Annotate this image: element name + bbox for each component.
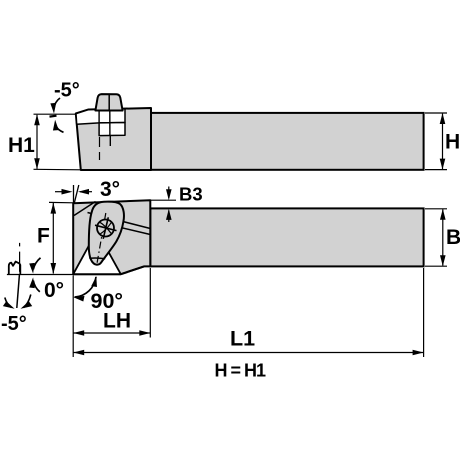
B3 upper arrow — [168, 187, 170, 199]
-5 arc arrow upper — [50, 103, 57, 114]
svg-text:3°: 3° — [100, 178, 120, 201]
L1 arrow left — [73, 350, 84, 356]
H top extension line — [425, 112, 447, 114]
B top extension line — [425, 208, 447, 210]
svg-text:-5°: -5° — [1, 313, 27, 335]
0 deg arc lower — [33, 281, 40, 292]
L1 right extension line — [423, 268, 425, 357]
clamp nose line — [89, 257, 105, 260]
head side view — [76, 108, 151, 170]
svg-text:0°: 0° — [44, 279, 64, 302]
H1 bottom extension line — [34, 168, 82, 171]
F top extension line — [49, 201, 73, 203]
90 arc arrow lower — [73, 294, 85, 301]
0 deg arrow upper — [29, 263, 36, 274]
B arrow down — [440, 255, 446, 266]
svg-text:H: H — [445, 131, 460, 154]
LH right extension line — [149, 268, 151, 338]
svg-text:F: F — [37, 225, 50, 248]
-5 arc arrow right — [19, 301, 32, 309]
clamp window lower (white) — [99, 123, 125, 136]
svg-text:H = H1: H = H1 — [215, 361, 267, 381]
H arrow down — [440, 159, 446, 170]
dimension H line — [442, 114, 444, 169]
L1 arrow right — [413, 350, 424, 356]
B arrow up — [440, 209, 446, 220]
-5 deg arc upper (top view) — [54, 98, 60, 109]
-5 deg arc right (bottom) — [24, 295, 31, 308]
dimension F line — [52, 203, 54, 274]
LH arrow left — [73, 330, 84, 336]
clamp (plan view) — [89, 202, 124, 265]
B3 lower arrow — [168, 211, 170, 223]
clamp centerline — [97, 213, 106, 265]
insert (triangle) — [73, 231, 121, 274]
insert icon — [9, 262, 20, 274]
svg-text:-5°: -5° — [54, 80, 80, 102]
shank plan view — [150, 208, 423, 266]
clamp window upper (white) — [76, 109, 125, 125]
B3 extension line — [150, 199, 176, 201]
3 deg left arrow — [55, 191, 70, 193]
dimension L1 line — [73, 352, 423, 354]
reference line at insert tip level — [7, 274, 73, 276]
-5 arc arrow lower — [52, 120, 59, 131]
3 deg tick slanted — [74, 185, 79, 203]
H1 top extension line — [34, 113, 77, 115]
dimension B line — [442, 209, 444, 265]
dimension LH line — [73, 332, 150, 334]
0 deg arrow lower — [29, 277, 36, 288]
head plan view — [73, 200, 150, 274]
B bottom extension line — [425, 265, 447, 267]
tilted centerline below — [17, 275, 20, 308]
insert icon centerline — [19, 243, 21, 272]
pocket chamfer line — [74, 202, 96, 216]
H1 arrow down — [34, 158, 40, 169]
H bottom extension line — [425, 169, 447, 171]
screw centerline dashes — [99, 137, 101, 160]
H1 arrow up — [34, 114, 40, 125]
svg-text:LH: LH — [103, 310, 131, 333]
pocket line A — [88, 213, 151, 229]
-5 deg arc lower (top view) — [55, 124, 63, 132]
svg-text:H1: H1 — [8, 134, 35, 157]
0 deg arc upper — [33, 258, 40, 270]
LH/L1 left extension line — [72, 276, 74, 358]
-5 arc arrow left — [3, 301, 16, 309]
-5 deg arc left (bottom) — [5, 298, 12, 308]
F arrow up — [51, 203, 57, 214]
clamp inner line 2 — [109, 110, 111, 135]
3 deg right arrow — [80, 191, 92, 193]
clamp screw — [95, 217, 117, 239]
H arrow up — [440, 113, 446, 124]
svg-text:B3: B3 — [179, 184, 203, 205]
F arrow down — [51, 263, 57, 274]
90 deg arc — [75, 277, 97, 297]
svg-text:B: B — [446, 226, 460, 249]
3 deg tick vertical — [73, 185, 75, 203]
pocket line B — [91, 221, 150, 235]
clamp knob top — [95, 94, 122, 110]
clamp inner line 1 — [98, 110, 100, 123]
knob divider — [108, 94, 110, 110]
90 arc arrow — [91, 276, 99, 288]
head bottom diagonal — [121, 266, 144, 274]
screw hidden line — [109, 135, 111, 146]
LH arrow right — [139, 330, 150, 336]
dimension H1 line — [36, 115, 38, 169]
shank side view — [151, 113, 424, 170]
svg-text:L1: L1 — [230, 327, 255, 351]
-5 deg tilt line (top view) — [50, 115, 57, 118]
